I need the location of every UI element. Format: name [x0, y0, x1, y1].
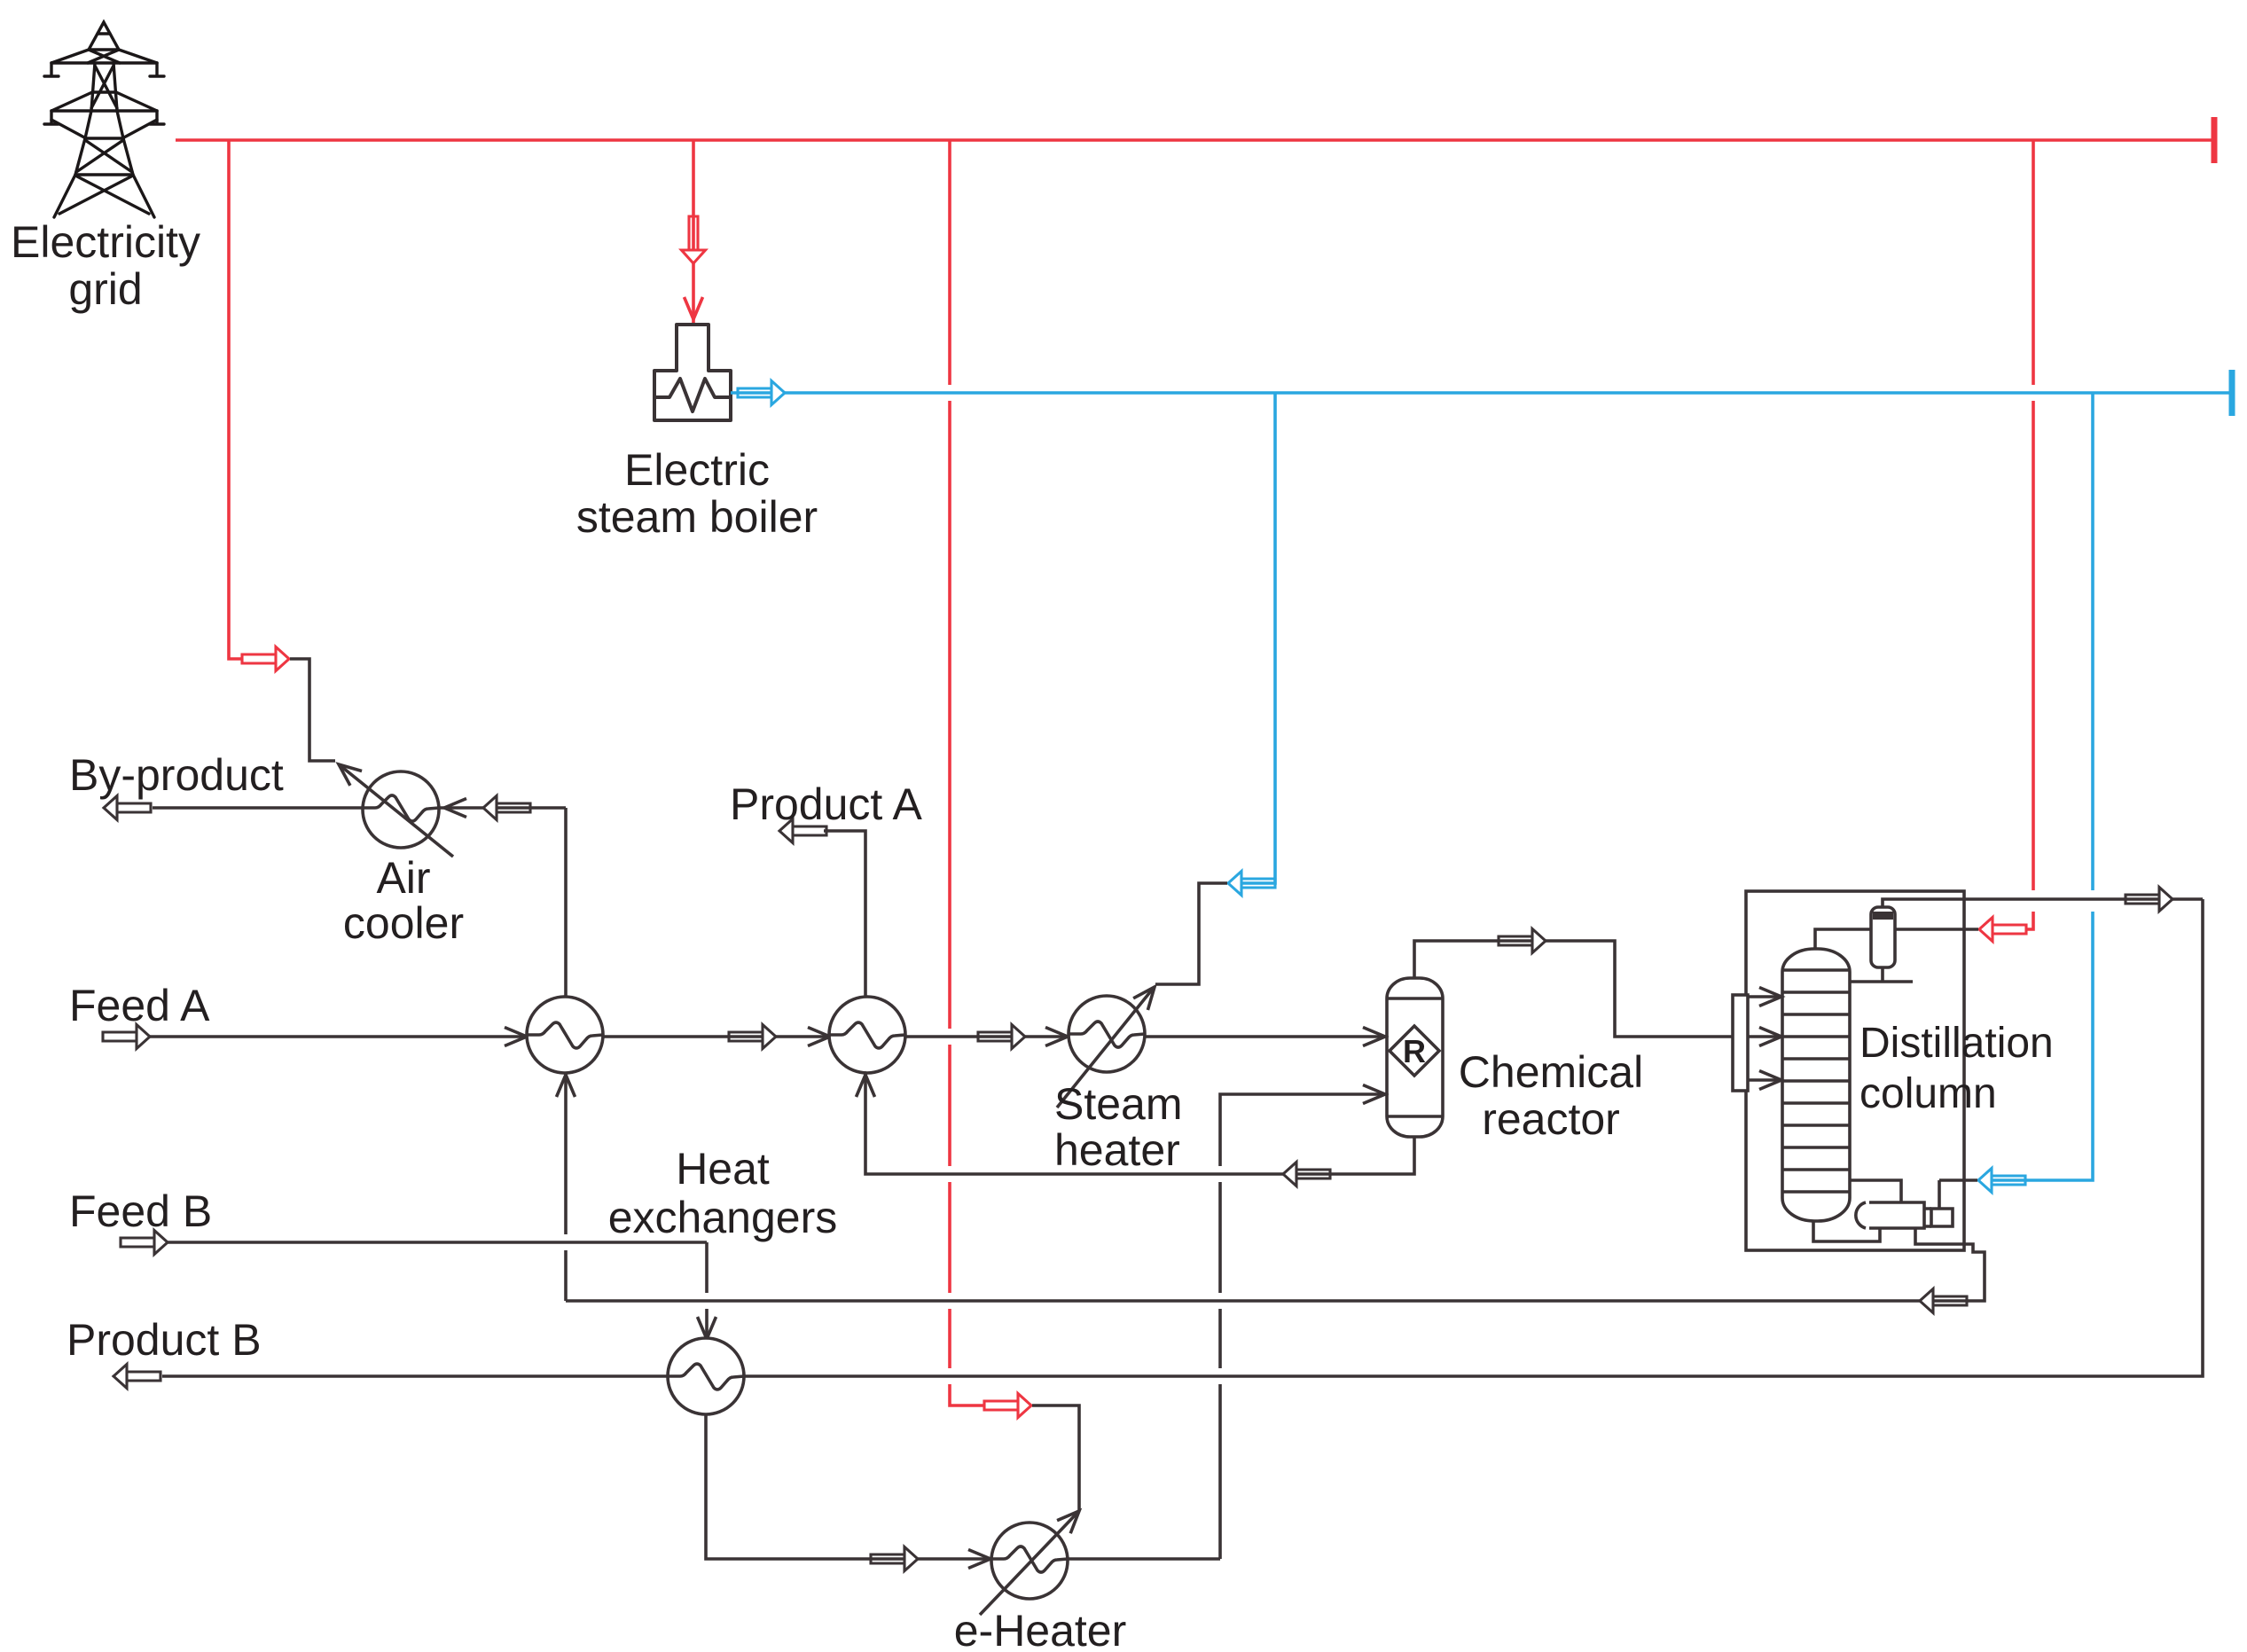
component chemical reactor vessel [1387, 978, 1443, 1137]
node chevron into e-Heater [968, 1550, 990, 1569]
svg-text:column: column [1859, 1070, 1997, 1117]
svg-text:Feed A: Feed A [69, 981, 210, 1030]
component heat exchanger HX2 [829, 997, 905, 1073]
svg-text:exchangers: exchangers [608, 1193, 838, 1242]
wire steam link into reboiler [1939, 1180, 1977, 1209]
electricity grid pylon icon [44, 22, 164, 217]
svg-text:Air: Air [376, 853, 430, 903]
node blue bus end terminator [2229, 370, 2235, 416]
node chevron branch mid [1759, 1028, 1781, 1046]
node arrow on reactor bottoms line [1283, 1163, 1330, 1186]
wire distributor branches [1748, 997, 1782, 1080]
svg-text:heater: heater [1054, 1125, 1180, 1175]
svg-text:Product A: Product A [730, 779, 922, 829]
wire red drop mid (to e-Heater) with crossing gaps [950, 140, 984, 1405]
node arrow after HX1 [729, 1025, 776, 1049]
svg-text:R: R [1403, 1033, 1426, 1069]
node chevron up into HX2 [857, 1075, 875, 1097]
node chevron second inlet into reactor [1363, 1085, 1385, 1104]
svg-text:Product B: Product B [67, 1315, 262, 1365]
node Product B arrow [114, 1365, 160, 1389]
node Product A arrow [779, 819, 826, 843]
wire black link red-arrow to air cooler fan [290, 659, 335, 761]
wire reflux from condenser bottom [1849, 967, 1913, 982]
wire black link to e-Heater fan [1032, 1405, 1079, 1511]
node red hollow arrow down into boiler [682, 216, 706, 263]
svg-text:e-Heater: e-Heater [954, 1606, 1127, 1652]
node arrow on distillate line [2126, 888, 2173, 912]
wire blue drop to steam heater [1241, 393, 1275, 883]
wire By-product line [153, 806, 566, 810]
wire HX3 bottom to e-Heater [706, 1414, 1220, 1559]
svg-text:Chemical: Chemical [1459, 1047, 1643, 1097]
wire Feed B line [167, 1242, 707, 1341]
wire blue steam bus [731, 391, 2232, 395]
node chevron up into HX1 [557, 1075, 575, 1097]
node arrow after HX2 [978, 1025, 1025, 1049]
node chevron down into HX3 [698, 1317, 716, 1339]
component distillation column vessel [1782, 949, 1850, 1221]
component distillation unit box [1746, 891, 1964, 1250]
component electric steam boiler [654, 325, 731, 420]
node red arrow to e-Heater [984, 1394, 1031, 1418]
wire reactor bottoms to HX2 riser [865, 1073, 1414, 1174]
node steam heater diagonal arrowhead [1133, 981, 1162, 1010]
svg-text:Electricity: Electricity [11, 217, 200, 267]
wire reactor top outlet to column feed [1414, 941, 1734, 1037]
wire Product A line from HX2 top [824, 831, 865, 997]
node red arrow to condenser [1979, 918, 2026, 942]
wire column bottoms to reboiler [1813, 1221, 1880, 1241]
svg-text:grid: grid [68, 264, 142, 314]
wire red drop right (to condenser) with crossing gaps [2027, 140, 2033, 929]
wire Feed A line [149, 1035, 1387, 1038]
component e-Heater [980, 1514, 1077, 1615]
wire Product B line [162, 899, 2203, 1376]
node chevron into HX2 [808, 1028, 830, 1046]
node blue arrow to steam heater link [1228, 872, 1275, 896]
svg-text:steam boiler: steam boiler [576, 492, 818, 542]
svg-text:cooler: cooler [343, 898, 464, 948]
wire column draw to reboiler [1850, 1180, 1901, 1203]
node red arrow to air cooler [242, 647, 289, 671]
svg-text:reactor: reactor [1482, 1094, 1620, 1144]
svg-text:By-product: By-product [69, 750, 284, 800]
node hollow arrow into air cooler [483, 796, 530, 820]
component steam heater [1057, 989, 1153, 1108]
node arrow on recycle line [1920, 1289, 1967, 1313]
node feed distributor [1733, 995, 1748, 1091]
wire blue drop to reboiler with crossing gap [1992, 393, 2093, 1180]
component air cooler [339, 764, 453, 857]
svg-text:Heat: Heat [676, 1144, 770, 1194]
component heat exchanger HX1 [527, 997, 603, 1073]
node blue arrow from boiler [738, 381, 785, 405]
node red bus end terminator [2212, 117, 2218, 163]
node chevron into steam heater [1045, 1028, 1068, 1046]
component heat exchanger HX3 [668, 1338, 744, 1414]
wire condenser to red supply [1895, 928, 1978, 931]
wire distillate from condenser top [1883, 899, 2203, 907]
node Feed A source arrow [103, 1025, 150, 1049]
wire riser from recycle through HX1 up to by-product line [564, 808, 568, 1301]
node chevron branch bottom [1759, 1071, 1781, 1090]
wire second reactor inlet from e-Heater riser [1220, 1094, 1387, 1559]
wire red electricity bus [176, 138, 2214, 142]
component condenser drum [1871, 907, 1895, 967]
node arrow on reactor outlet [1499, 929, 1546, 953]
node chevron into air cooler [444, 799, 466, 818]
node red chevron into boiler [685, 297, 703, 319]
svg-text:Distillation: Distillation [1859, 1020, 2054, 1067]
node e-Heater diagonal arrowhead [1057, 1505, 1085, 1534]
wire recycle line from column bottoms to HX1 [566, 1228, 1985, 1301]
node chevron into reactor [1363, 1028, 1385, 1046]
svg-text:Steam: Steam [1054, 1079, 1183, 1129]
wire red drop to boiler [692, 140, 695, 325]
component kettle reboiler [1856, 1202, 1953, 1228]
wire steam heater to blue supply [1155, 883, 1227, 984]
svg-text:Feed B: Feed B [69, 1186, 212, 1236]
node blue arrow to reboiler link [1978, 1169, 2025, 1193]
node Feed B source arrow [121, 1231, 168, 1255]
wire red drop to air cooler [229, 140, 242, 659]
node arrow on e-Heater inlet line [871, 1547, 918, 1571]
svg-text:Electric: Electric [624, 445, 770, 495]
node chevron into HX1 [505, 1028, 527, 1046]
wire column overhead to condenser [1815, 929, 1871, 949]
node reactor R diamond [1390, 1026, 1439, 1076]
node air cooler fan arrowhead [333, 757, 362, 786]
node chevron branch top [1759, 988, 1781, 1006]
node By-product arrow [104, 796, 151, 820]
